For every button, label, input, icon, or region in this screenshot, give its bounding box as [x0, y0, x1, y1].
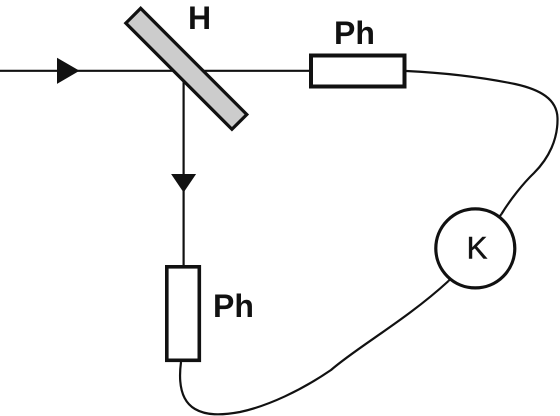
input beam arrowhead [57, 58, 80, 84]
wire from top photodetector to counter [407, 71, 558, 214]
svg-text:Ph: Ph [213, 288, 254, 324]
svg-text:H: H [188, 0, 211, 36]
svg-text:K: K [467, 230, 488, 266]
wire through counter (covered by circle) [449, 214, 502, 281]
beam splitter H [126, 8, 247, 129]
wire from bottom photodetector to counter [180, 281, 448, 414]
wire vertical beam [183, 71, 185, 266]
svg-text:Ph: Ph [334, 15, 375, 51]
wire input beam horizontal [0, 70, 309, 72]
photodetector Ph (bottom) [167, 267, 200, 361]
coincidence counter K circle [436, 209, 515, 288]
vertical beam arrowhead [171, 174, 196, 193]
photodetector Ph (top) [311, 56, 405, 87]
